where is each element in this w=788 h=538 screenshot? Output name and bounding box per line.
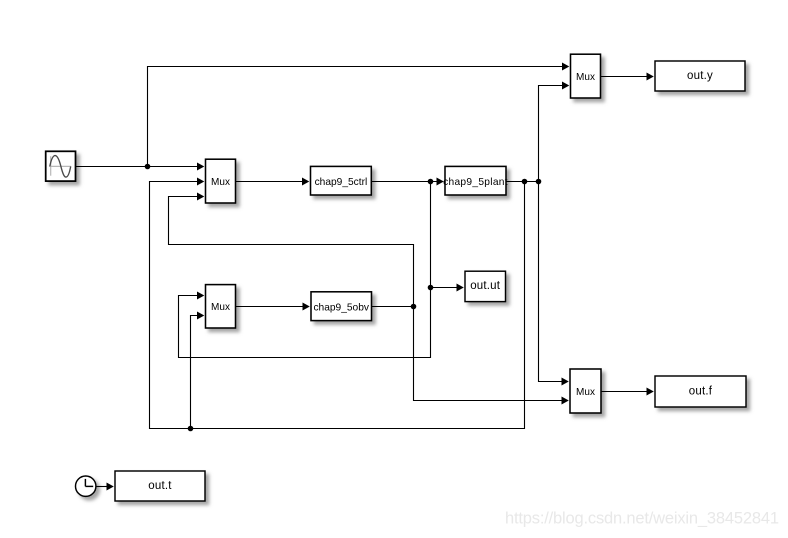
svg-text:Mux: Mux: [211, 177, 230, 188]
wire: Mux4 output to out.y: [601, 73, 654, 81]
node: junction for out.ut branch: [428, 285, 434, 291]
wire: plant output down to Mux3 input 1: [539, 182, 569, 386]
wire: obv output to junction: [372, 306, 414, 308]
watermark text: [505, 510, 779, 528]
wire: junction to out.ut: [431, 284, 464, 292]
wire: obv output down to Mux3 input 2: [414, 307, 569, 405]
wire: Mux2 output to chap9_5obv: [236, 303, 310, 311]
wire: plant output up to Mux4 input 2: [539, 82, 570, 182]
svg-text:Mux: Mux: [211, 302, 230, 313]
svg-text:out.ut: out.ut: [470, 280, 501, 292]
svg-text:chap9_5plant: chap9_5plant: [443, 177, 508, 188]
wire: junction up and across to Mux4 input 1: [148, 63, 570, 167]
block chap9_5ctrl: [311, 166, 372, 195]
svg-text:Mux: Mux: [576, 72, 595, 83]
node: junction on sine wire: [145, 164, 151, 170]
svg-text:chap9_5ctrl: chap9_5ctrl: [315, 177, 368, 188]
node: obv output junction: [411, 304, 417, 310]
sine wave source block: [46, 151, 76, 181]
node: junction on feedback for Mux2 input 2: [188, 426, 194, 432]
svg-text:Mux: Mux: [576, 387, 595, 398]
wire: chap9_5plant output to node: [506, 181, 539, 183]
mux Mux2: [206, 285, 236, 328]
clock source: [76, 476, 96, 496]
svg-text:out.y: out.y: [687, 70, 713, 82]
wire: plant output feedback down, left, up to Mux1 input 2: [150, 178, 525, 429]
block chap9_5obv: [311, 292, 372, 321]
wire: sine source to Mux1 input 1: [76, 163, 205, 171]
outport block out.y: [655, 61, 745, 91]
node: junction plant output A: [522, 179, 528, 185]
node: junction on ctrl-plant wire: [428, 179, 434, 185]
svg-text:chap9_5obv: chap9_5obv: [313, 302, 369, 313]
wire: ctrl output junction down, left, up to Mux2 input 1: [179, 182, 431, 358]
wire: Mux3 output to out.f: [601, 388, 654, 396]
wire: chap9_5ctrl output to chap9_5plant: [371, 178, 444, 186]
outport block out.f: [655, 376, 746, 407]
node: junction plant output B: [536, 179, 542, 185]
mux Mux4 (top): [571, 54, 601, 98]
mux Mux1: [206, 159, 236, 203]
wire: obv output up, left, up to Mux1 input 3: [169, 193, 414, 307]
svg-text:out.t: out.t: [148, 480, 172, 492]
svg-text:https://blog.csdn.net/weixin_3: https://blog.csdn.net/weixin_38452841: [505, 510, 779, 528]
mux Mux3 (bottom): [570, 369, 601, 413]
svg-text:out.f: out.f: [689, 386, 713, 398]
wire: feedback junction up to Mux2 input 2: [191, 312, 205, 429]
wire: clock to out.t: [96, 483, 114, 491]
block chap9_5plant: [443, 166, 508, 195]
outport block out.t: [115, 471, 205, 501]
wire: Mux1 output to chap9_5ctrl: [236, 178, 310, 186]
outport block out.ut: [465, 271, 506, 301]
